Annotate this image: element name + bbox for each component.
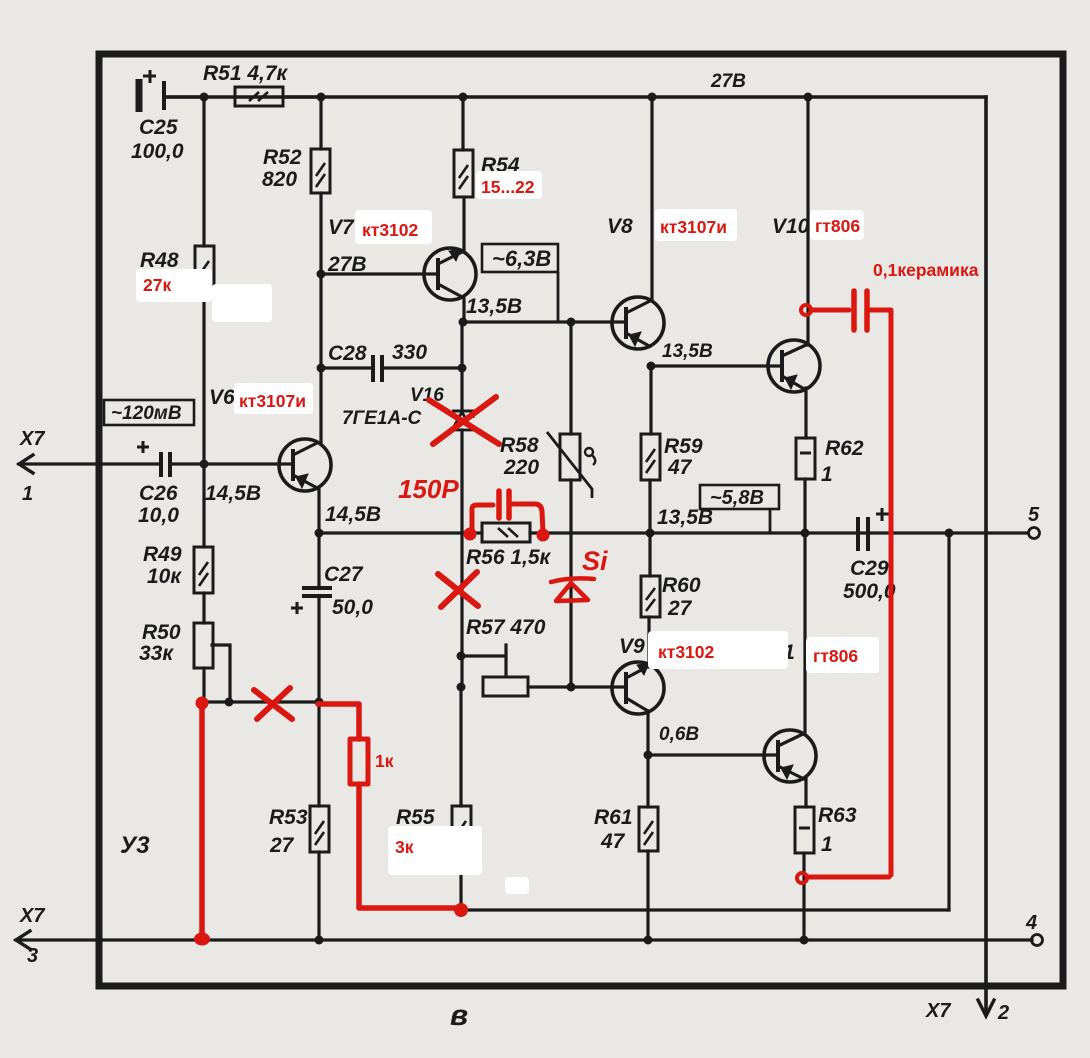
svg-text:1: 1 <box>22 483 33 505</box>
svg-text:R52: R52 <box>263 146 302 169</box>
terminal 5 circle <box>1029 528 1040 539</box>
wire R50 to node 702 <box>202 668 205 702</box>
node C27 bottom <box>315 698 324 707</box>
svg-text:R63: R63 <box>818 804 857 827</box>
wire V10 emitter down to R62 <box>804 388 807 438</box>
diode V16 <box>452 411 473 430</box>
svg-text:0,1керамика: 0,1керамика <box>873 260 979 280</box>
svg-text:820: 820 <box>262 168 297 191</box>
node mid rail R59-R60 <box>646 529 655 538</box>
svg-text:V7: V7 <box>328 216 355 239</box>
svg-text:C28: C28 <box>328 342 367 365</box>
svg-text:в: в <box>450 999 468 1032</box>
svg-text:V6: V6 <box>209 386 235 409</box>
wire C28 left <box>321 366 371 369</box>
resistor R49 <box>194 547 213 593</box>
svg-text:1к: 1к <box>375 751 394 771</box>
wire node 322 to V8 base <box>463 320 625 323</box>
red Si diode sketch <box>551 578 594 601</box>
svg-text:15...22: 15...22 <box>481 177 535 197</box>
wire R48 to input node <box>202 291 205 464</box>
node R57 right <box>567 683 576 692</box>
node bottom rail R63 <box>800 936 809 945</box>
svg-text:3к: 3к <box>395 837 414 857</box>
resistor R63 <box>795 807 814 853</box>
node mid rail feedback <box>945 529 954 538</box>
wire C28 node down to V16 <box>460 368 463 411</box>
svg-text:3: 3 <box>27 945 38 967</box>
transistor V7 <box>424 248 476 300</box>
node V8 emitter <box>647 362 656 371</box>
wire V11 emitter down to R63 <box>804 778 807 807</box>
resistor R62 <box>796 438 815 479</box>
svg-text:C27: C27 <box>324 563 364 586</box>
svg-text:C25: C25 <box>139 116 178 139</box>
svg-text:R58: R58 <box>500 434 539 457</box>
node R57 left <box>457 683 466 692</box>
svg-text:5: 5 <box>1028 504 1040 526</box>
svg-text:кт3102: кт3102 <box>362 220 419 240</box>
svg-text:R56 1,5к: R56 1,5к <box>466 546 552 569</box>
svg-text:R50: R50 <box>142 621 181 644</box>
node top rail at R52 column <box>317 93 326 102</box>
svg-text:~5,8В: ~5,8В <box>710 487 764 509</box>
wire R57 node down to R55 <box>459 687 462 806</box>
svg-text:R48: R48 <box>140 249 179 272</box>
svg-text:X7: X7 <box>19 905 45 927</box>
svg-text:0,6В: 0,6В <box>659 724 699 745</box>
svg-text:R61: R61 <box>594 806 633 829</box>
svg-text:гт806: гт806 <box>813 646 858 666</box>
wire feedback bottom horizontal <box>461 908 949 911</box>
wire R49 to R50 <box>202 593 205 623</box>
wire R62 to mid rail <box>803 479 806 533</box>
svg-text:50,0: 50,0 <box>332 596 373 619</box>
svg-text:X7: X7 <box>19 428 45 450</box>
svg-text:220: 220 <box>503 456 539 479</box>
svg-text:27В: 27В <box>327 253 367 276</box>
arrowhead X7-1 <box>19 455 33 473</box>
wire R57 wiper stem <box>504 645 507 676</box>
svg-text:V9: V9 <box>619 635 645 658</box>
wire R53 to bottom rail <box>317 852 320 940</box>
wire V7 base node down to V6 collector <box>319 274 322 442</box>
wire X7-1 input line <box>19 462 159 465</box>
wire V9 collector down to node 755 <box>646 711 649 755</box>
node V7 collector y322 <box>459 318 468 327</box>
svg-text:4: 4 <box>1025 912 1037 934</box>
node input C26 <box>200 460 209 469</box>
svg-text:V8: V8 <box>607 215 633 238</box>
wire column R52: rail to R52 <box>319 97 322 149</box>
svg-text:27: 27 <box>269 834 295 857</box>
transistor V11 <box>764 730 816 782</box>
svg-text:27к: 27к <box>143 275 171 295</box>
wire mid output rail left segment <box>319 531 482 534</box>
svg-text:C26: C26 <box>139 482 178 505</box>
resistor R58 trimmer <box>547 432 595 498</box>
svg-text:кт3102: кт3102 <box>658 642 715 662</box>
wire R57 right to V9 base <box>528 685 625 688</box>
wire mid rail down to V11 collector <box>803 533 806 733</box>
svg-text:~6,3В: ~6,3В <box>492 246 551 271</box>
capacitor C27 <box>291 588 332 614</box>
wire R54 to V7 emitter <box>462 197 465 250</box>
resistor R50 <box>194 623 213 668</box>
arrowhead X7-3 <box>16 931 30 949</box>
svg-text:500,0: 500,0 <box>843 580 896 603</box>
svg-text:27: 27 <box>667 597 693 620</box>
wire V8 emitter node down to R59 <box>649 366 652 434</box>
wire mid output rail right segment <box>530 531 1028 534</box>
svg-text:R60: R60 <box>662 574 701 597</box>
svg-text:кт3107и: кт3107и <box>660 217 727 237</box>
node bottom rail R53 <box>315 936 324 945</box>
svg-text:14,5В: 14,5В <box>205 482 261 505</box>
node R50 wiper <box>225 698 234 707</box>
svg-text:R62: R62 <box>825 437 864 460</box>
capacitor C28 <box>373 355 382 382</box>
wire R59 to mid rail <box>648 480 651 533</box>
wire node 702 down to R53 <box>317 702 320 806</box>
svg-text:R55: R55 <box>396 806 435 829</box>
svg-text:10,0: 10,0 <box>138 504 179 527</box>
svg-text:27В: 27В <box>710 71 746 92</box>
svg-text:гт806: гт806 <box>815 216 860 236</box>
wire R58 bottom crossing mid rail to V9 base row <box>569 480 572 687</box>
node R57 wiper <box>457 652 466 661</box>
svg-text:150Р: 150Р <box>398 474 459 504</box>
arrowhead X7-2 <box>978 1000 994 1016</box>
wire R60 to V9 emitter <box>647 617 650 667</box>
svg-text:14,5В: 14,5В <box>325 503 381 526</box>
wire 27V supply down to X7-2 <box>984 97 988 1014</box>
resistor R55 <box>452 806 471 853</box>
wire R63 to bottom rail <box>802 853 805 940</box>
resistor R57 potentiometer <box>483 677 528 696</box>
node top rail at R54 column <box>459 93 468 102</box>
svg-text:1: 1 <box>821 833 833 856</box>
wire V8 emitter node to V10 base <box>651 364 781 367</box>
resistor R56 <box>482 523 530 542</box>
wire top rail 27V <box>166 95 986 99</box>
capacitor C25 <box>139 70 204 112</box>
transistor V8 <box>612 297 664 349</box>
wire mid rail down to C27 <box>317 533 320 587</box>
svg-text:330: 330 <box>392 341 427 364</box>
node C28 left <box>317 364 326 373</box>
wire R52 to V7 base node <box>319 193 322 274</box>
svg-text:У3: У3 <box>120 832 150 859</box>
node mid rail R62-V11 <box>801 529 810 538</box>
node V9 collector <box>644 751 653 760</box>
annotation box ~120mV <box>104 400 194 425</box>
capacitor C29 <box>858 508 889 551</box>
svg-text:R59: R59 <box>664 435 703 458</box>
svg-text:кт3107и: кт3107и <box>239 391 306 411</box>
red ceramic cap wire at V10-V11 <box>797 291 891 883</box>
wire column R54: rail to R54 <box>461 97 464 150</box>
svg-text:C29: C29 <box>850 557 889 580</box>
wire R50 wiper tap <box>212 645 230 702</box>
wire C27 to node 702 <box>317 597 320 702</box>
wire column R58 top: node 322 down to R58 <box>569 322 572 434</box>
wire feedback vertical up to mid rail <box>947 533 950 910</box>
svg-text:1: 1 <box>821 463 833 486</box>
node R58 top <box>567 318 576 327</box>
resistor R60 <box>641 576 660 617</box>
wire V10 collector up to rail <box>806 97 809 345</box>
red X below R56 <box>438 572 478 607</box>
node V7 base <box>317 270 326 279</box>
resistor R51 <box>235 87 321 106</box>
transistor V6 <box>279 439 331 491</box>
node top rail at V10 collector <box>804 93 813 102</box>
svg-text:~120мВ: ~120мВ <box>111 403 182 424</box>
wire input node to R49 <box>202 464 205 547</box>
terminal 4 circle <box>1032 935 1043 946</box>
capacitor C26 <box>137 441 170 477</box>
node C28 right <box>458 364 467 373</box>
svg-text:V10: V10 <box>772 215 810 238</box>
red X over diode V16 <box>429 397 499 444</box>
svg-text:X7: X7 <box>925 1000 951 1022</box>
wire column R48: rail to R48 <box>202 97 205 246</box>
red bypass capacitor over R56 <box>464 491 550 542</box>
wire R55 to feedback line <box>459 853 462 910</box>
svg-text:R51 4,7к: R51 4,7к <box>203 62 289 85</box>
wire node 755 down to R61 <box>646 755 649 807</box>
node mid rail V6 emitter <box>315 529 324 538</box>
wire node 755 to V11 base <box>648 753 778 756</box>
node top rail at R48 column <box>200 93 209 102</box>
annotation box ~6,3V with pointer <box>482 244 558 322</box>
red wire left vertical with dots <box>194 697 210 946</box>
wire node row y702 <box>202 700 319 703</box>
border frame <box>99 54 1063 986</box>
resistor R61 <box>639 807 658 851</box>
svg-text:13,5В: 13,5В <box>657 506 713 529</box>
svg-text:33к: 33к <box>139 642 174 665</box>
svg-text:47: 47 <box>600 830 626 853</box>
svg-text:100,0: 100,0 <box>131 140 184 163</box>
wire R61 to bottom rail <box>646 851 649 940</box>
resistor R59 <box>641 434 660 480</box>
svg-text:10к: 10к <box>147 565 182 588</box>
wire bottom rail to X7-3 <box>16 938 1032 941</box>
wire mid rail crossing down to R57 nodes <box>460 533 463 687</box>
resistor R53 <box>310 806 329 852</box>
svg-text:7ГЕ1А-С: 7ГЕ1А-С <box>342 408 422 429</box>
svg-text:R49: R49 <box>143 543 182 566</box>
wire C26 to V6 base <box>171 462 293 465</box>
node top rail at V8 collector <box>648 93 657 102</box>
transistor V9 <box>612 662 664 714</box>
wire C28 right <box>384 366 462 369</box>
wire V7 base <box>321 272 437 275</box>
svg-text:47: 47 <box>667 456 693 479</box>
svg-text:2: 2 <box>997 1002 1009 1024</box>
red X on wire y702 <box>254 688 292 719</box>
resistor R48 <box>195 246 214 291</box>
red jumper wire with 1k resistor <box>318 704 468 917</box>
transistor V10 <box>768 340 820 392</box>
svg-text:Si: Si <box>582 546 608 576</box>
svg-text:13,5В: 13,5В <box>466 295 522 318</box>
svg-text:13,5В: 13,5В <box>662 341 713 362</box>
annotation box ~5,8V with pointer <box>700 485 779 533</box>
wire R57 wiper row <box>461 654 506 657</box>
resistor R54 <box>454 150 473 197</box>
svg-text:R53: R53 <box>269 806 308 829</box>
svg-text:R57 470: R57 470 <box>466 616 546 639</box>
wire V7 collector down to node 322 <box>462 299 465 322</box>
wire V8 collector up to rail <box>650 97 653 300</box>
resistor R52 <box>311 149 330 193</box>
wire V16 to mid rail crossing <box>460 430 463 533</box>
node bottom rail R61 <box>644 936 653 945</box>
wire node 322 down to C28 node <box>460 322 463 368</box>
wire mid rail to R60 <box>648 533 651 576</box>
wire V6 emitter down to mid rail <box>317 489 320 533</box>
